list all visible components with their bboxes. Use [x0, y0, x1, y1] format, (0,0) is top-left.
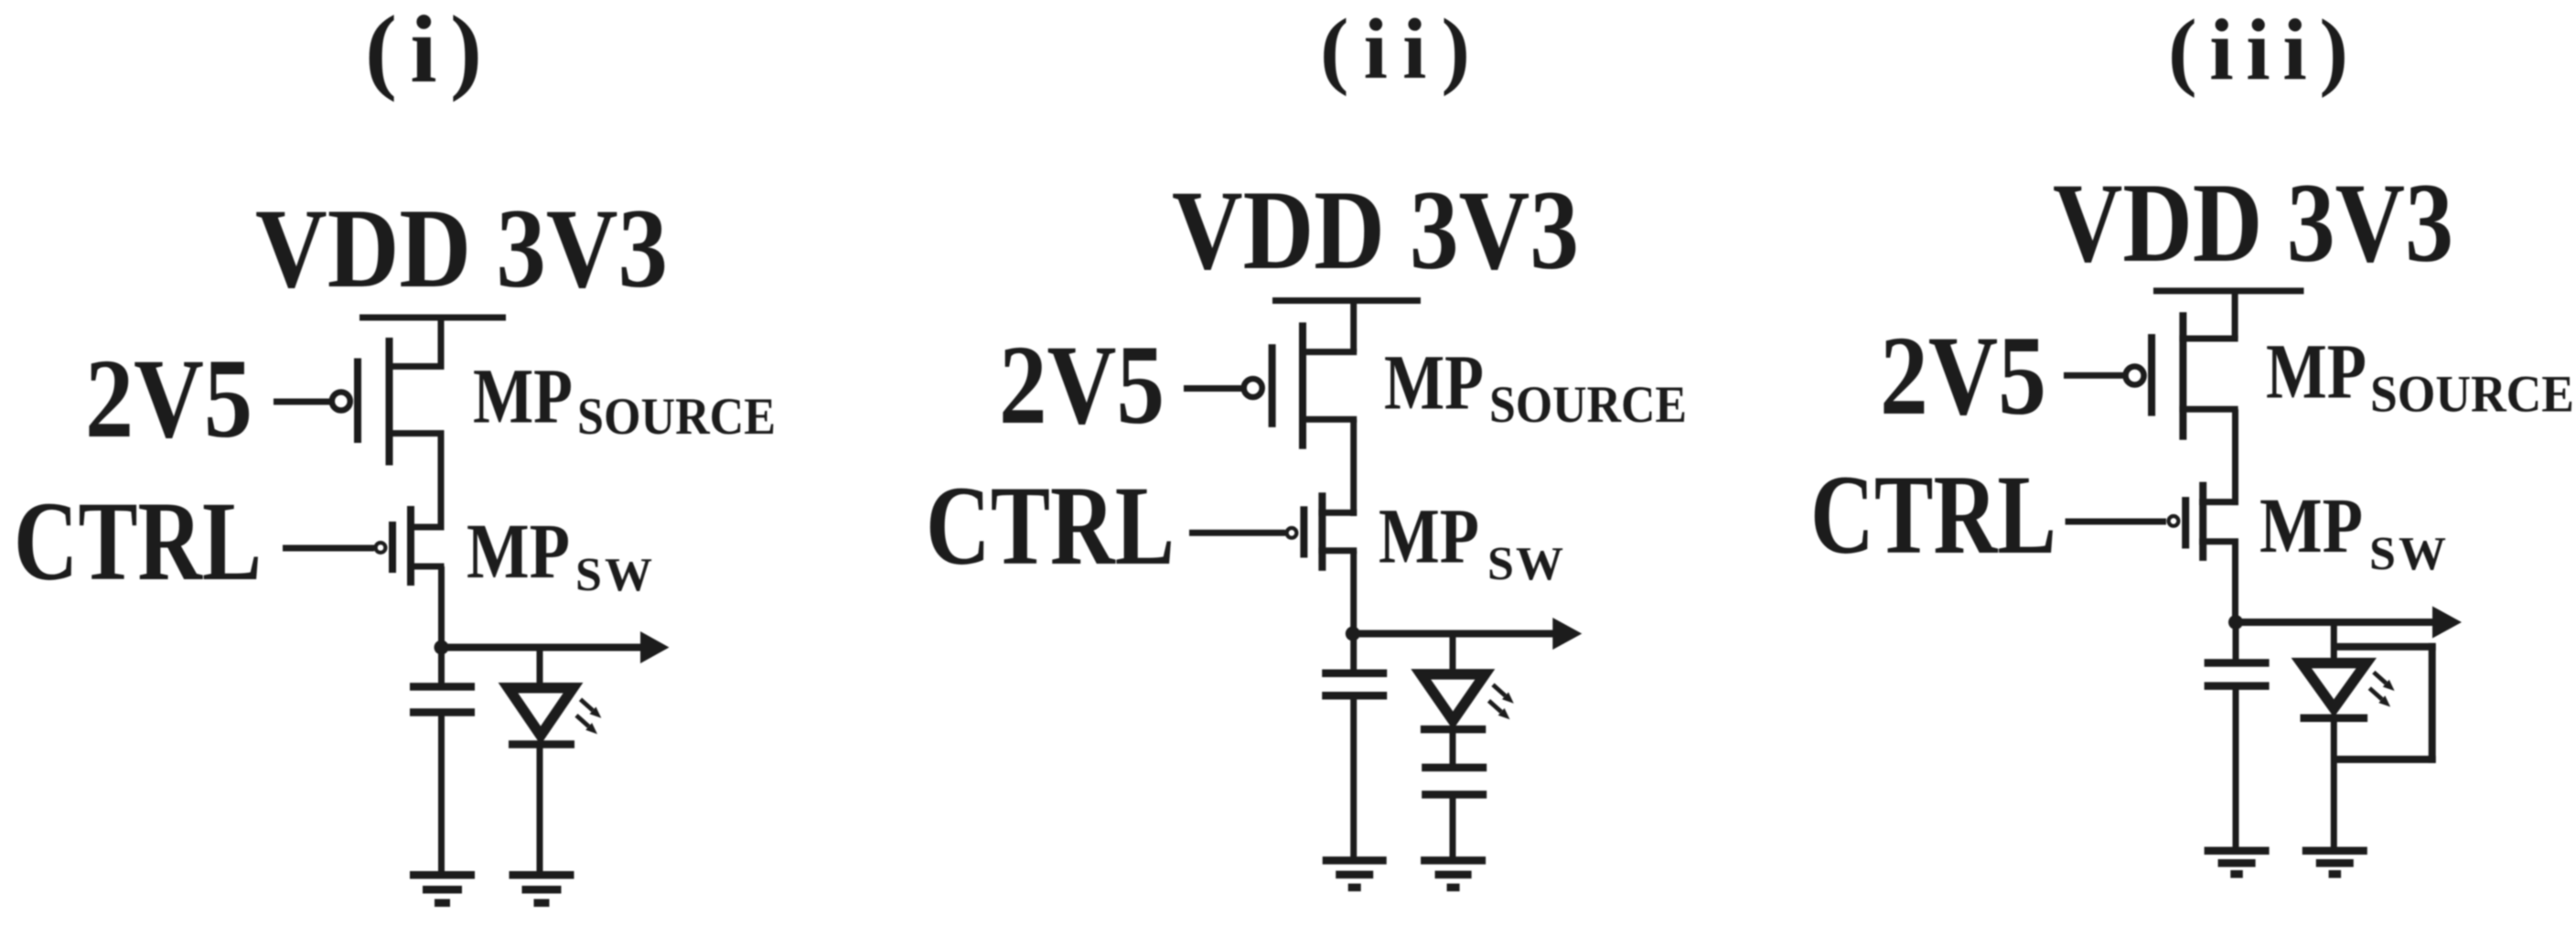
svg-text:MP: MP [2259, 481, 2363, 569]
svg-text:SOURCE: SOURCE [2370, 366, 2574, 424]
svg-text:VDD 3V3: VDD 3V3 [255, 186, 668, 311]
svg-text:SOURCE: SOURCE [577, 388, 776, 446]
svg-text:MP: MP [467, 507, 570, 595]
svg-text:MP: MP [473, 352, 573, 440]
svg-text:SOURCE: SOURCE [1489, 376, 1687, 434]
svg-text:MP: MP [2266, 328, 2367, 415]
svg-text:CTRL: CTRL [926, 463, 1175, 588]
svg-text:VDD 3V3: VDD 3V3 [2053, 160, 2453, 285]
svg-text:2V5: 2V5 [85, 336, 252, 461]
svg-text:MP: MP [1384, 338, 1484, 425]
svg-text:SW: SW [1487, 538, 1563, 590]
svg-text:(iii): (iii) [2168, 2, 2348, 99]
svg-text:2V5: 2V5 [1880, 313, 2046, 438]
svg-text:CTRL: CTRL [1810, 452, 2056, 577]
svg-text:(i): (i) [365, 0, 482, 102]
svg-text:SW: SW [575, 549, 652, 601]
svg-text:SW: SW [2369, 528, 2446, 580]
svg-text:CTRL: CTRL [14, 479, 262, 604]
svg-text:VDD 3V3: VDD 3V3 [1172, 167, 1579, 293]
svg-text:MP: MP [1379, 492, 1479, 580]
svg-text:2V5: 2V5 [999, 322, 1165, 447]
